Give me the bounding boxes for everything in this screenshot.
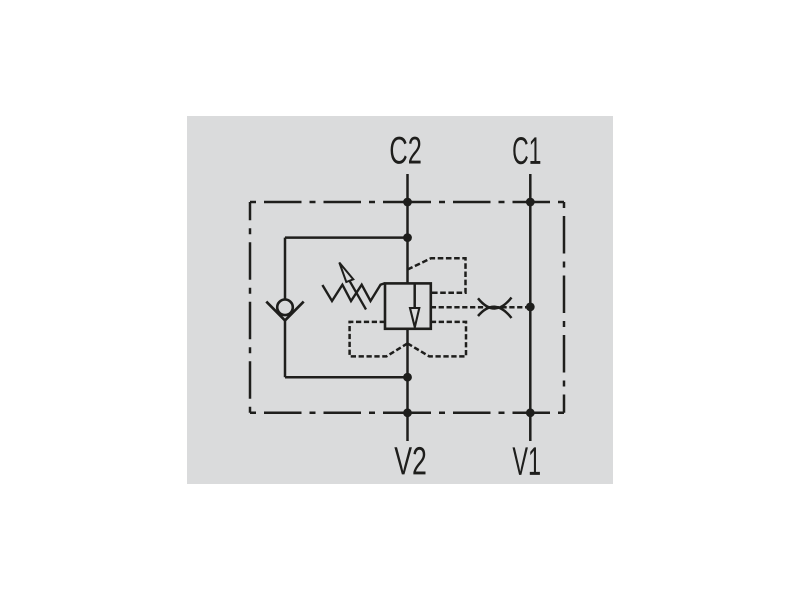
node: C1 at boundary <box>526 198 535 207</box>
node: orifice to C1 junction <box>526 303 535 312</box>
pilot line to orifice (dashed) <box>431 306 531 309</box>
pilot line upper (dashed) <box>408 258 466 292</box>
node: branch top junction <box>403 233 412 242</box>
wire: boundary bottom right half <box>407 412 564 415</box>
pilot line lower-left (dashed) <box>350 322 408 357</box>
wire: C2-V2 main line lower <box>406 329 409 441</box>
node: V2 at boundary <box>403 408 412 417</box>
wire: check valve branch top <box>285 236 408 239</box>
valve poppet arrow head <box>410 308 419 327</box>
valve poppet stem <box>413 283 416 308</box>
wire: C2-V2 main line upper <box>406 174 409 283</box>
check valve seat <box>266 302 303 321</box>
wire: boundary top right half <box>407 201 564 204</box>
node: branch bottom junction <box>403 373 412 382</box>
pilot line lower-right (dashed) <box>408 322 467 357</box>
wire: check valve branch bottom <box>285 376 408 379</box>
label V1 <box>513 447 540 475</box>
valve U1 body square <box>385 283 431 328</box>
adjustment arrow shaft <box>349 280 366 309</box>
wire: boundary bottom left half <box>250 412 407 415</box>
wire: boundary top left half <box>250 201 407 204</box>
label V2 <box>394 447 425 475</box>
wire: C1-V1 main line <box>529 174 532 441</box>
adjustment arrow head <box>339 263 353 283</box>
wire: check valve branch left lower <box>284 320 287 377</box>
wire: check valve branch left upper <box>284 238 287 299</box>
label C1 <box>513 137 540 164</box>
wire: boundary right <box>563 202 566 413</box>
label C2 <box>391 137 421 164</box>
wire: boundary left <box>249 202 252 413</box>
orifice restrictor <box>478 298 512 319</box>
check valve ball <box>277 300 293 316</box>
valve body boundary (dash-dot rectangle) <box>250 202 564 413</box>
spring (adjustable) <box>322 283 385 301</box>
node: C2 at boundary <box>403 198 412 207</box>
node: V1 at boundary <box>526 408 535 417</box>
